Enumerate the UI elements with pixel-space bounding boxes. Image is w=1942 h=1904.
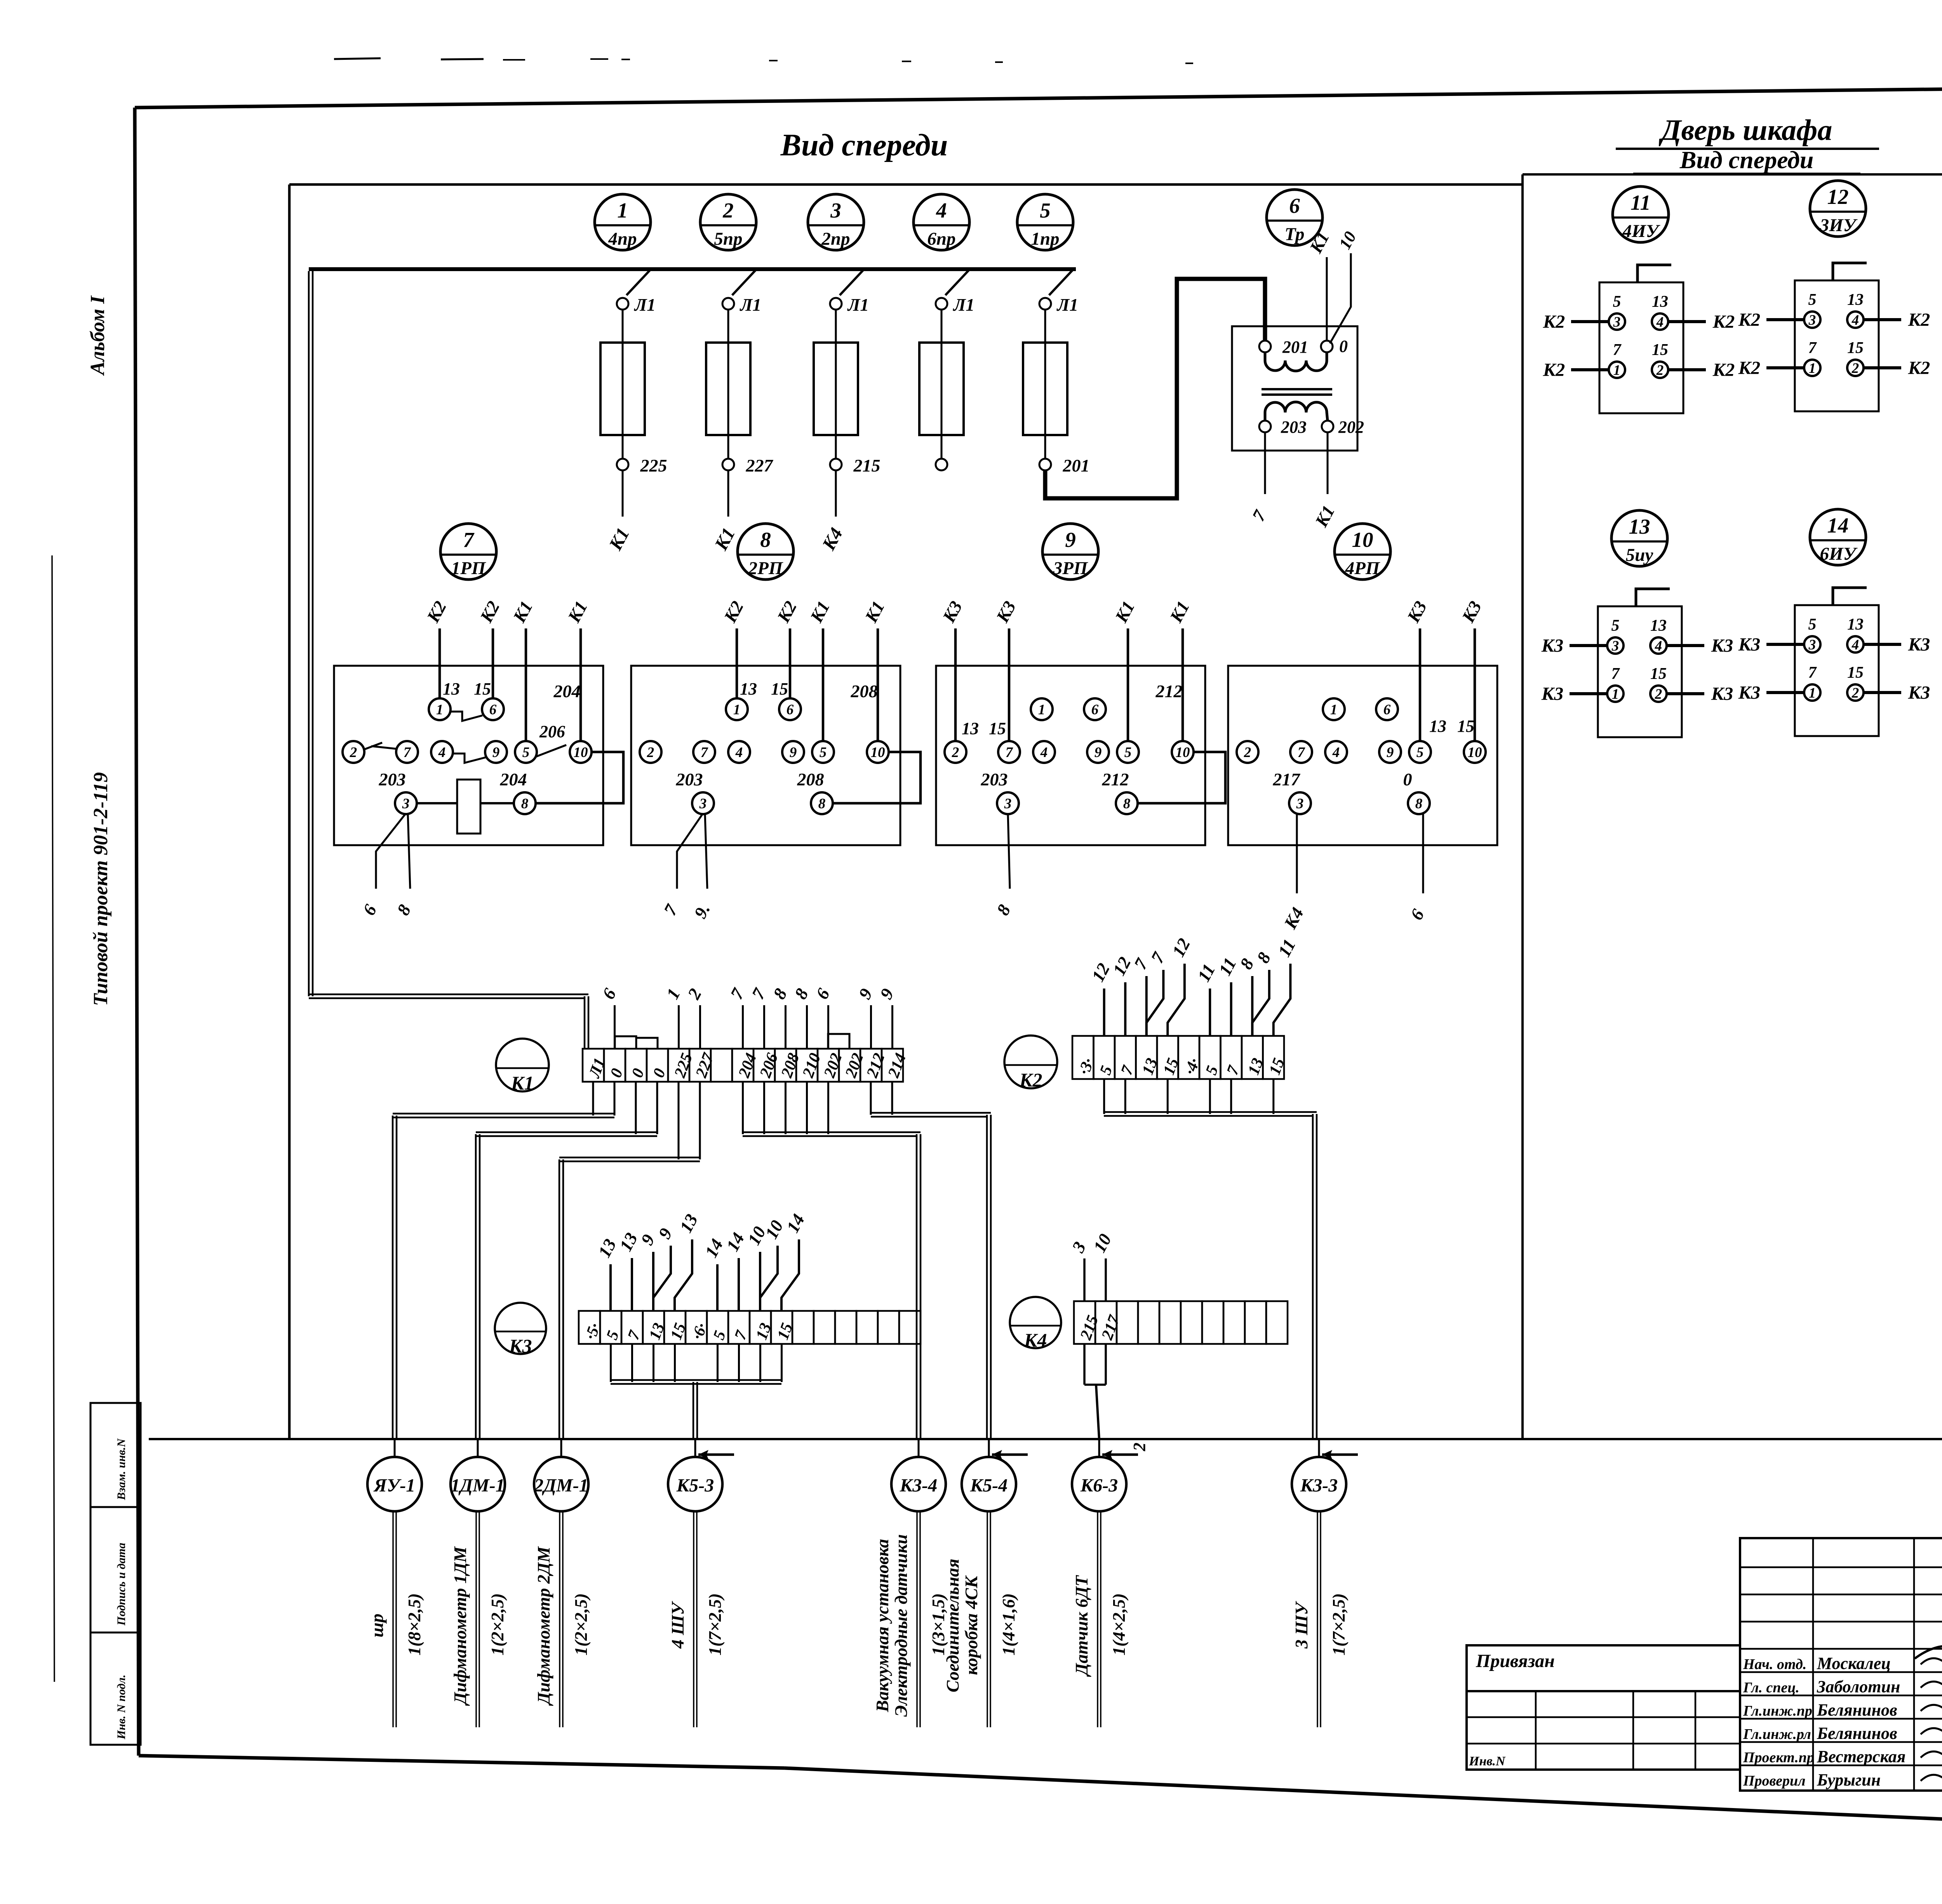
svg-text:215: 215 (1077, 1313, 1102, 1342)
svg-text:0: 0 (1403, 769, 1412, 789)
svg-text:Подпись и дата: Подпись и дата (115, 1543, 128, 1626)
svg-text:К3: К3 (1403, 598, 1430, 626)
svg-text:9: 9 (876, 985, 898, 1002)
svg-text:К2: К2 (1712, 312, 1735, 332)
wire 1 above К1 cell 225 (662, 985, 684, 1049)
wire terminal 202 down, label К1 (1311, 432, 1338, 531)
svg-text:8: 8 (993, 901, 1015, 918)
svg-text:4: 4 (735, 745, 743, 761)
wires 11,11,8,8,11 above К2 cells 5-15 (1194, 936, 1300, 1036)
svg-text:Гл. спец.: Гл. спец. (1743, 1679, 1799, 1696)
svg-text:2: 2 (684, 985, 705, 1002)
relay 3РП pin 10 (1172, 741, 1194, 763)
wire 9 above К1 cell 214 (876, 985, 898, 1049)
door unit 5иу pin 1 (wire 7) (1607, 665, 1624, 702)
svg-text:1: 1 (1809, 360, 1816, 376)
relay 2РП jumper pin10-pin8 (832, 752, 921, 803)
svg-text:2: 2 (1852, 360, 1859, 376)
svg-text:7: 7 (660, 901, 682, 919)
relay 3РП pin labels 13 15 (962, 719, 1006, 738)
svg-text:0: 0 (607, 1066, 626, 1080)
svg-text:217: 217 (1098, 1312, 1124, 1343)
relay 1РП pin 4 (431, 741, 453, 763)
svg-text:К2: К2 (1908, 358, 1930, 378)
svg-text:10: 10 (574, 745, 588, 761)
wire 2 above К1 cell 227 (684, 985, 705, 1049)
cable К3-3 lead (1317, 1511, 1321, 1727)
svg-text:13: 13 (1847, 616, 1864, 634)
svg-text:0: 0 (650, 1066, 669, 1080)
svg-text:210: 210 (799, 1051, 824, 1080)
wires 14,14,10,10,14 above К3 (701, 1211, 809, 1311)
svg-text:215: 215 (853, 456, 881, 475)
svg-text:5: 5 (603, 1328, 623, 1342)
svg-text:шр: шр (367, 1613, 387, 1637)
harness К3 to cable К5-3 (611, 1344, 782, 1439)
svg-text:14: 14 (722, 1229, 748, 1255)
relay 4РП pin 4 (1325, 741, 1347, 763)
svg-text:Вакуумная установка: Вакуумная установка (872, 1539, 892, 1713)
cable head К3-3 (1292, 1439, 1346, 1511)
terminal Л1 of circuit 4 (936, 295, 974, 315)
svg-text:1(2×2,5): 1(2×2,5) (571, 1593, 591, 1655)
disconnect blade of circuit 3 (840, 270, 863, 295)
svg-text:К2: К2 (1543, 312, 1565, 332)
relay 1РП wires К2 К2 to pins 1,6 (423, 598, 503, 699)
svg-text:1РП: 1РП (451, 558, 486, 578)
svg-text:9.: 9. (690, 900, 714, 921)
svg-text:1(7×2,5): 1(7×2,5) (1329, 1593, 1349, 1655)
wire 8 above К1 cell 208 (769, 985, 791, 1049)
svg-text:К3: К3 (509, 1335, 532, 1357)
relay 1РП pin 8 (514, 792, 536, 814)
relay 2РП pin 3 (692, 792, 714, 814)
svg-text:Тр: Тр (1284, 224, 1304, 244)
fuse cartridge 2 (706, 343, 750, 435)
lower terminal of circuit 5 (1039, 456, 1090, 475)
relay 4РП pin 7 (1290, 741, 1312, 763)
svg-text:Гл.инж.пр: Гл.инж.пр (1743, 1703, 1812, 1719)
svg-text:Вестерская: Вестерская (1817, 1747, 1905, 1766)
relay 2РП designator (738, 524, 794, 580)
relay 1РП wires 6,8 from pin 3 (359, 813, 415, 919)
mark at cable К3-3 (1322, 1450, 1358, 1459)
terminal strip К3 designator (495, 1303, 546, 1357)
relay 4РП wires К3 К3 to pins 5,10 (1403, 598, 1485, 742)
svg-text:1: 1 (733, 702, 741, 718)
svg-text:К1: К1 (1305, 228, 1333, 257)
cable head ЯУ-1 (367, 1439, 422, 1511)
transformer secondary terminal 202 (1322, 418, 1364, 437)
svg-text:12: 12 (1168, 935, 1194, 960)
svg-text:5: 5 (1096, 1063, 1116, 1077)
relay 3РП pin 1 (1031, 698, 1053, 720)
relay 2РП pin 1 (726, 698, 748, 720)
svg-text:13: 13 (740, 679, 757, 698)
relay 2РП pin 2 (640, 741, 661, 763)
door unit 5иу outline (1598, 606, 1682, 737)
terminal strip К3 cells (579, 1311, 921, 1344)
svg-text:К3-3: К3-3 (1300, 1475, 1338, 1496)
svg-text:5: 5 (522, 745, 530, 761)
door unit 4ИУ outline (1599, 282, 1683, 413)
svg-text:10: 10 (1176, 745, 1190, 761)
svg-text:1(8×2,5): 1(8×2,5) (404, 1593, 424, 1655)
svg-text:7: 7 (701, 745, 708, 761)
svg-text:15: 15 (1847, 339, 1864, 357)
svg-text:15: 15 (1457, 717, 1474, 736)
transformer primary terminal 0 (1321, 337, 1348, 356)
svg-text:5: 5 (1202, 1063, 1222, 1077)
svg-text:6: 6 (1289, 194, 1300, 218)
svg-text:К1: К1 (1311, 502, 1338, 531)
svg-text:203: 203 (981, 769, 1008, 789)
svg-text:6: 6 (489, 702, 497, 718)
harness К1 cells 204-202 to cable К3-4 (743, 1082, 921, 1439)
cable К5-3 destination label (668, 1593, 725, 1655)
svg-text:Л1: Л1 (847, 295, 869, 315)
svg-text:1(7×2,5): 1(7×2,5) (705, 1593, 725, 1655)
svg-text:3: 3 (699, 796, 707, 812)
svg-text:1: 1 (436, 702, 444, 718)
svg-text:0: 0 (628, 1066, 648, 1080)
door unit 3ИУ outline (1795, 280, 1879, 411)
terminal strip К2 cells (1072, 1036, 1288, 1079)
svg-text:К1: К1 (861, 598, 888, 626)
relay 3РП pin 3 (997, 792, 1019, 814)
door unit 3ИУ designator (1810, 181, 1866, 237)
wire circuit 5 to transformer (1045, 279, 1265, 498)
relay 1РП contact 1-6 (450, 712, 482, 721)
svg-text:коробка 4СК: коробка 4СК (961, 1575, 981, 1675)
svg-text:13: 13 (1652, 293, 1668, 311)
svg-text:8: 8 (1415, 796, 1423, 812)
door unit 5иу pin 3 (wire 5) (1607, 617, 1624, 654)
relay 1РП pin 3 (395, 792, 417, 814)
transformer Тр outline (1232, 326, 1357, 451)
wire 7 above К1 cell 206 (748, 985, 770, 1049)
svg-text:7: 7 (463, 528, 475, 552)
door unit 3ИУ pin 2 (wire 15) (1847, 339, 1864, 376)
svg-text:ЯУ-1: ЯУ-1 (373, 1475, 415, 1496)
fuse cartridge 4 (919, 343, 964, 435)
svg-text:Инв. N подл.: Инв. N подл. (115, 1674, 128, 1740)
svg-text:2: 2 (1130, 1443, 1149, 1451)
svg-text:1(4×1,6): 1(4×1,6) (999, 1593, 1018, 1655)
relay 2РП pin 10 (867, 741, 889, 763)
relay 1РП pin labels 13 15 (443, 679, 491, 698)
signature table grid (1740, 1538, 1942, 1791)
svg-text:5: 5 (1611, 617, 1620, 635)
svg-text:7: 7 (748, 985, 770, 1002)
wires 13,13,9,9,13,13 above К3 (594, 1211, 702, 1311)
svg-text:Белянинов: Белянинов (1817, 1700, 1897, 1720)
door unit 6ИУ mounting hook (1833, 588, 1867, 605)
svg-text:6: 6 (598, 985, 620, 1002)
lead 10 to transformer (1330, 228, 1360, 343)
wire terminal 0 to К1 (1326, 257, 1328, 341)
svg-text:8: 8 (1253, 949, 1275, 966)
svg-text:К2: К2 (476, 598, 503, 626)
svg-text:2: 2 (952, 745, 959, 761)
svg-text:7: 7 (1611, 665, 1620, 683)
jumper on К1 cells 202-202 (828, 1034, 849, 1049)
svg-text:Л1: Л1 (740, 295, 762, 315)
svg-text:5: 5 (1040, 198, 1051, 222)
door unit 3ИУ pin 3 (wire 5) (1804, 291, 1820, 328)
cable head К6-3 (1072, 1439, 1126, 1511)
door unit 6ИУ pin 3 (wire 5) (1804, 616, 1820, 653)
door unit 4ИУ designator (1613, 186, 1669, 242)
svg-text:К2: К2 (1738, 358, 1761, 378)
svg-text:217: 217 (1273, 769, 1301, 789)
svg-text:К5-4: К5-4 (970, 1475, 1008, 1496)
svg-text:9: 9 (1095, 745, 1102, 761)
svg-text:К1: К1 (564, 598, 591, 626)
svg-text:Дифманометр 1ДМ: Дифманометр 1ДМ (450, 1546, 470, 1706)
door unit 5иу mounting hook (1636, 589, 1670, 606)
svg-text:1: 1 (662, 985, 684, 1002)
cable 1ДМ-1 lead (476, 1511, 479, 1727)
svg-text:К2: К2 (773, 598, 800, 626)
svg-text:1(4×2,5): 1(4×2,5) (1109, 1593, 1129, 1655)
relay 1РП contact 5-10 with label 206 (536, 722, 566, 757)
svg-text:Л1: Л1 (953, 295, 975, 315)
svg-text:8: 8 (790, 985, 812, 1002)
relay 1РП wires К1 К1 to pins 5,10 (509, 598, 591, 742)
svg-text:10: 10 (1352, 528, 1373, 552)
relay 2РП pin 5 (812, 741, 834, 763)
relay 4РП wire 6 from pin 8 (1406, 813, 1428, 923)
relay 4РП pin 5 (1409, 741, 1431, 763)
svg-text:10: 10 (1468, 745, 1482, 761)
fuse cartridge 1 (600, 343, 645, 435)
cable К3-3 destination label (1291, 1593, 1349, 1655)
attachment box Привязан (1467, 1645, 1740, 1691)
svg-text:3: 3 (402, 796, 410, 812)
harness К1 cells Л1,0 to cable ЯУ-1 (393, 1082, 614, 1439)
relay 4РП pin 6 (1376, 698, 1398, 720)
svg-text:К2: К2 (720, 598, 747, 626)
svg-text:Москалец: Москалец (1817, 1654, 1891, 1673)
svg-text:201: 201 (1282, 338, 1308, 357)
fuse cartridge 5 (1023, 343, 1067, 435)
door unit 6ИУ pin 1 (wire 7) (1804, 664, 1820, 701)
relay 2РП pin labels 13 15 (740, 679, 788, 698)
svg-text:212: 212 (1155, 681, 1183, 701)
svg-text:К4: К4 (818, 524, 847, 554)
svg-text:13: 13 (443, 679, 460, 698)
cable head К5-3 (668, 1439, 722, 1511)
svg-text:4: 4 (1655, 638, 1662, 654)
svg-text:Л1: Л1 (585, 1056, 609, 1081)
svg-text:7: 7 (731, 1328, 751, 1342)
svg-text:7: 7 (1006, 745, 1013, 761)
svg-text:3: 3 (1068, 1238, 1089, 1256)
svg-text:4: 4 (1332, 745, 1340, 761)
attachment grid (1467, 1691, 1740, 1770)
svg-text:Проект.пр: Проект.пр (1743, 1749, 1814, 1766)
relay 1РП outline (334, 666, 603, 845)
relay 4РП pin labels 13 15 (1429, 717, 1474, 736)
svg-text:10: 10 (871, 745, 885, 761)
transformer secondary winding (1265, 402, 1328, 421)
svg-text:201: 201 (1063, 456, 1090, 475)
svg-text:К2: К2 (1738, 310, 1761, 330)
supply bus wire (309, 269, 1076, 996)
svg-text:13: 13 (1429, 717, 1446, 736)
relay 3РП pin 5 (1117, 741, 1139, 763)
door unit 6ИУ designator (1810, 509, 1866, 565)
relay 1РП pin 10 (570, 741, 592, 763)
svg-text:9: 9 (1065, 528, 1076, 552)
door unit 3ИУ pin 1 (wire 7) (1804, 339, 1820, 376)
door unit 5иу pin 4 (wire 13) (1650, 617, 1667, 654)
cable head 2ДМ-1 (534, 1439, 588, 1511)
svg-text:3: 3 (1611, 638, 1619, 654)
svg-text:9: 9 (854, 985, 876, 1002)
relay 4РП designator (1335, 524, 1390, 580)
relay 1РП contact 4-9 (452, 754, 486, 763)
door unit 6ИУ pin 2 (wire 15) (1847, 664, 1864, 701)
svg-text:5: 5 (710, 1328, 729, 1342)
svg-text:5: 5 (820, 745, 827, 761)
door unit 4ИУ pin 4 (wire 13) (1652, 293, 1668, 330)
relay 4РП pin 8 (1408, 792, 1430, 814)
svg-text:212: 212 (863, 1051, 888, 1080)
svg-text:К3: К3 (1711, 635, 1733, 656)
svg-text:1: 1 (1809, 685, 1816, 701)
svg-text:208: 208 (797, 769, 824, 789)
terminal Л1 of circuit 2 (722, 295, 761, 315)
fuse circuit 4 (6ПР): designator (914, 194, 969, 250)
svg-text:10: 10 (1335, 228, 1360, 252)
svg-text:К2: К2 (1908, 310, 1930, 330)
relay 1РП pin 7 (396, 741, 418, 763)
svg-text:3: 3 (1296, 796, 1304, 812)
svg-text:К3-4: К3-4 (900, 1475, 938, 1496)
svg-text:202: 202 (842, 1051, 867, 1080)
svg-text:225: 225 (640, 456, 667, 475)
door unit 3ИУ mounting hook (1833, 263, 1867, 280)
svg-text:9: 9 (1387, 745, 1394, 761)
svg-text:К1: К1 (710, 524, 739, 554)
signatures (1743, 1634, 1942, 1789)
door unit 4ИУ pin 3 (wire 5) (1609, 293, 1625, 330)
svg-text:7: 7 (1298, 745, 1305, 761)
svg-text:К1: К1 (1111, 598, 1138, 626)
svg-text:3: 3 (1808, 637, 1816, 653)
svg-text:К3: К3 (1711, 684, 1733, 704)
cable head К5-4 (962, 1439, 1016, 1511)
svg-text:К2: К2 (1543, 360, 1565, 380)
door unit 6ИУ outline (1795, 605, 1879, 736)
relay 3РП wires К1 К1 to pins 5,10 (1111, 598, 1193, 742)
svg-text:2ДМ-1: 2ДМ-1 (534, 1475, 588, 1496)
svg-text:4 ШУ: 4 ШУ (668, 1601, 687, 1649)
svg-text:10: 10 (1089, 1230, 1115, 1256)
disconnect blade of circuit 1 (626, 270, 650, 295)
svg-text:К6-3: К6-3 (1080, 1475, 1118, 1496)
relay 3РП outline (936, 666, 1205, 845)
svg-text:Нач. отд.: Нач. отд. (1743, 1656, 1806, 1673)
door unit 3ИУ pin 4 (wire 13) (1847, 291, 1864, 328)
mark at cable К5-3 (698, 1450, 734, 1459)
svg-text:2: 2 (350, 745, 357, 761)
relay 1РП designator (440, 524, 496, 580)
relay 2РП pin 9 (782, 741, 804, 763)
harness К4 to cable К6-3 (1084, 1344, 1106, 1439)
svg-text:7: 7 (404, 745, 411, 761)
relay 1РП pin 9 (485, 741, 507, 763)
door unit 5иу designator (1611, 510, 1667, 566)
relay 1РП pin 5 (515, 741, 537, 763)
svg-text:Привязан: Привязан (1476, 1651, 1555, 1671)
wire 6 above К1 cell 202 (812, 985, 834, 1049)
svg-text:1: 1 (1612, 686, 1619, 702)
relay 3РП wire 8 from pin 3 (993, 813, 1015, 919)
svg-text:15: 15 (1652, 341, 1668, 359)
svg-text:6: 6 (359, 901, 381, 918)
svg-text:Гл.инж.рл: Гл.инж.рл (1743, 1726, 1811, 1742)
svg-text:3РП: 3РП (1053, 558, 1088, 578)
relay 4РП outline (1228, 666, 1497, 845)
svg-text:208: 208 (778, 1051, 803, 1080)
harness К1 cells 212,214 to cable К5-4 (871, 1082, 991, 1439)
svg-text:К2: К2 (423, 598, 450, 626)
relay 2РП pin 7 (693, 741, 715, 763)
relay 4РП pin 2 (1237, 741, 1258, 763)
svg-text:5пр: 5пр (714, 229, 742, 249)
svg-text:1: 1 (1038, 702, 1046, 718)
cabinet front-view panel outline (149, 184, 1942, 1439)
relay 2РП pin 6 (779, 698, 801, 720)
disconnect blade of circuit 2 (732, 270, 755, 295)
svg-text:8: 8 (1123, 796, 1131, 812)
svg-text:К4: К4 (1024, 1329, 1047, 1351)
svg-text:6: 6 (1383, 702, 1391, 718)
svg-text:4: 4 (1040, 745, 1048, 761)
relay 1РП pin 2 (343, 741, 364, 763)
svg-text:0: 0 (1339, 337, 1348, 356)
door unit 6ИУ leads to К3 (1738, 634, 1930, 703)
wire to К1 (727, 470, 729, 517)
svg-text:15: 15 (771, 679, 788, 698)
svg-text:11: 11 (1215, 954, 1240, 978)
jumpers on К1 cells 0-0-0 (615, 1036, 658, 1049)
transformer primary terminal 201 (1259, 338, 1308, 357)
door unit 4ИУ pin 1 (wire 7) (1609, 341, 1625, 378)
fuse circuit 5 (1ПР): designator (1017, 194, 1073, 250)
svg-text:Вид спереди: Вид спереди (780, 128, 948, 162)
svg-text:6ИУ: 6ИУ (1820, 544, 1858, 564)
door unit 4ИУ leads to К2 (1543, 312, 1735, 380)
relay 3РП pin 2 (945, 741, 966, 763)
svg-text:Соединительная: Соединительная (943, 1559, 962, 1692)
fuse circuit 2 (5ПР): designator (700, 194, 756, 250)
svg-text:К3: К3 (1738, 634, 1761, 655)
svg-text:1: 1 (1330, 702, 1338, 718)
svg-text:3: 3 (1808, 312, 1816, 328)
svg-text:7: 7 (625, 1328, 644, 1342)
svg-text:7: 7 (1117, 1063, 1137, 1077)
svg-text:К1: К1 (806, 598, 834, 626)
door subtitle Вид спереди (1633, 146, 1860, 174)
terminal strip К1 designator (496, 1039, 549, 1094)
lower terminal of circuit 4 (936, 459, 947, 470)
svg-text:227: 227 (692, 1050, 718, 1081)
svg-text:7: 7 (1248, 506, 1270, 524)
